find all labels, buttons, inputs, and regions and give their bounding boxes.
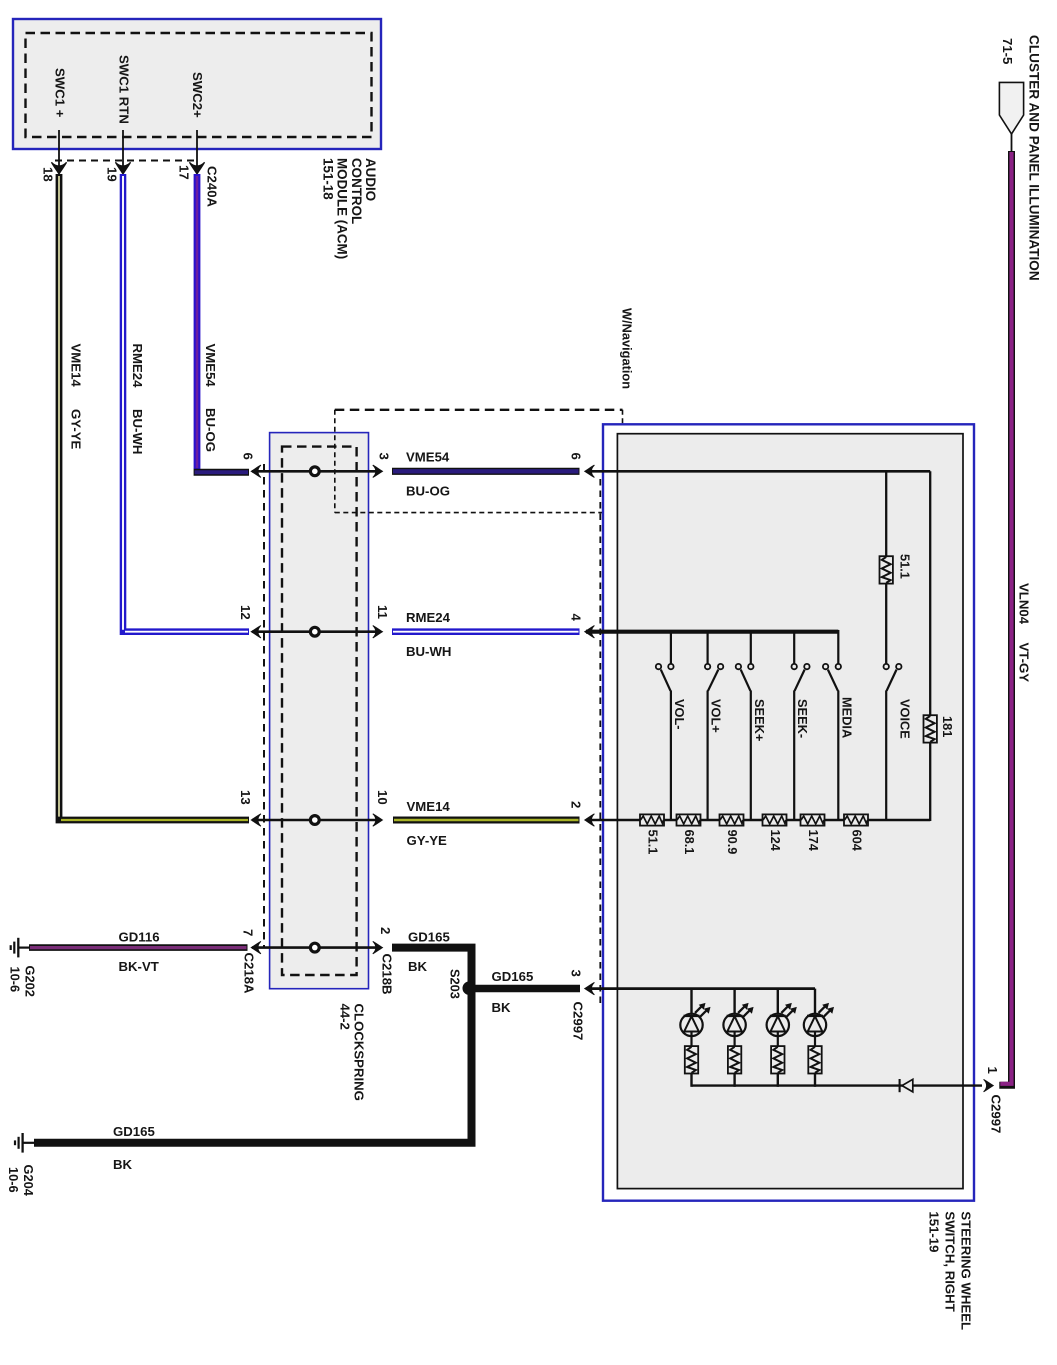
wire resistor 51.1 to VOICE switch: [885, 584, 887, 664]
LED4 resistor tail wire: [814, 1073, 816, 1087]
svg-text:1: 1: [985, 1067, 1000, 1074]
wire VME54 BU-OG horizontal (clockspring pin3 to switch pin6): [392, 468, 580, 475]
wire RME24 BU-WH vertical+horizontal (pin19 to clockspring pin12): [123, 174, 249, 632]
svg-text:BU-WH: BU-WH: [406, 644, 451, 659]
svg-text:2: 2: [378, 927, 393, 934]
wire GD116 BK-VT (G202 to clockspring pin7): [29, 944, 248, 951]
wire branch to resistor 51.1: [885, 471, 887, 556]
off-page connector symbol 71-5: [999, 82, 1023, 134]
clockspring coil symbol row 1: [310, 467, 319, 476]
svg-text:VME54: VME54: [406, 450, 450, 465]
svg-text:VME14: VME14: [407, 799, 451, 814]
wire VLN04 VT-GY vertical: [999, 151, 1011, 1085]
connector arrow clockspring pin 6: [251, 465, 261, 477]
connector arrow clockspring pin 3: [373, 465, 383, 477]
LED2 drop wire: [733, 989, 735, 1014]
internal wire from pin 6 (top): [586, 470, 930, 473]
internal LED return wire to pin 1: [692, 1084, 983, 1086]
svg-text:174: 174: [806, 830, 821, 852]
internal bus wire from pin 4: [586, 630, 838, 634]
svg-text:C218B: C218B: [379, 954, 394, 995]
svg-text:7: 7: [240, 929, 255, 936]
svg-text:VME14: VME14: [69, 344, 84, 388]
connector arrow clockspring pin 2: [373, 941, 383, 953]
ACM pin stub wire 18: [58, 130, 60, 166]
wire RME24 BU-WH horizontal (clockspring pin11 to switch pin4): [392, 628, 580, 635]
wire VME14 GY-YE horizontal (clockspring pin10 to switch pin2): [393, 817, 580, 824]
svg-text:181: 181: [940, 716, 955, 737]
svg-text:GD165: GD165: [408, 930, 450, 945]
resistor 181: [924, 715, 937, 742]
svg-text:3: 3: [569, 970, 584, 977]
resistor 90.9: [720, 814, 744, 825]
svg-text:BU-OG: BU-OG: [406, 484, 450, 499]
svg-text:VT-GY: VT-GY: [1017, 643, 1032, 683]
svg-text:11: 11: [375, 605, 390, 619]
bus drop to VOL+: [706, 632, 708, 664]
connector C240A dashed line: [55, 160, 198, 162]
clockspring internal wire row 3: [252, 819, 381, 822]
connector arrow pin 19: [115, 162, 130, 174]
ACM inner dashed border: [26, 33, 372, 137]
W/Navigation dashed box left edge: [334, 410, 336, 513]
switch VOL+: [705, 664, 723, 821]
resistor 68.1: [677, 814, 701, 825]
svg-text:BK-VT: BK-VT: [119, 959, 159, 974]
clockspring coil symbol row 3: [310, 816, 319, 825]
svg-text:SWC1 RTN: SWC1 RTN: [117, 55, 132, 124]
switch MEDIA: [823, 664, 841, 821]
svg-text:BK: BK: [492, 1000, 512, 1015]
LED4 resistor: [808, 1046, 821, 1073]
bus drop to VOL-: [670, 632, 672, 664]
svg-text:SEEK-: SEEK-: [795, 699, 810, 738]
ACM pin stub wire 19: [122, 130, 124, 166]
svg-text:12: 12: [238, 605, 253, 620]
LED3 drop wire: [777, 989, 779, 1014]
connector arrow switch pin 2: [585, 814, 595, 826]
svg-text:GD116: GD116: [119, 930, 160, 945]
svg-text:68.1: 68.1: [682, 830, 697, 855]
clockspring inner dashed border: [282, 447, 357, 975]
LED2: [723, 1003, 753, 1046]
svg-text:C240A: C240A: [205, 166, 220, 208]
LED3 resistor: [771, 1046, 784, 1073]
svg-text:SWC2+: SWC2+: [190, 72, 205, 118]
svg-text:BK: BK: [408, 959, 428, 974]
svg-text:19: 19: [105, 167, 120, 182]
svg-text:13: 13: [238, 790, 253, 805]
svg-text:51.1: 51.1: [898, 554, 913, 579]
ground G204: [15, 1133, 35, 1153]
svg-text:6: 6: [569, 453, 584, 460]
wire VME54 horizontal to clockspring pin 6: [194, 469, 249, 476]
svg-text:124: 124: [768, 830, 783, 852]
resistor 124: [763, 814, 787, 825]
svg-text:51.1: 51.1: [646, 830, 661, 855]
module box U-ACM outer: [13, 19, 381, 149]
svg-text:10: 10: [375, 790, 390, 805]
LED1 resistor tail wire: [690, 1073, 692, 1087]
connector arrow switch pin 6: [585, 465, 595, 477]
wire GD165 BK branch (S203 to switch pin3): [472, 985, 581, 992]
svg-text:C2997: C2997: [989, 1095, 1004, 1134]
svg-text:VLN04: VLN04: [1017, 583, 1032, 625]
clockspring coil symbol row 4: [310, 943, 319, 952]
svg-text:VOICE: VOICE: [898, 699, 913, 739]
switch SEEK-: [792, 664, 810, 821]
svg-text:3: 3: [377, 453, 392, 460]
svg-text:GY-YE: GY-YE: [407, 833, 448, 848]
svg-text:2: 2: [569, 801, 584, 808]
resistor 51.1 (row): [640, 814, 664, 825]
connector C2997 dashed line: [599, 479, 601, 1008]
diode D1: [900, 1079, 913, 1092]
svg-text:90.9: 90.9: [725, 830, 740, 855]
bus drop to MEDIA: [837, 630, 839, 664]
internal bottom row wire from pin 2: [586, 819, 930, 822]
svg-text:W/Navigation: W/Navigation: [619, 308, 634, 389]
clockspring internal wire row 4: [252, 946, 381, 949]
svg-text:SWC1 +: SWC1 +: [53, 68, 68, 118]
bus drop to SEEK-: [793, 632, 795, 664]
svg-text:6: 6: [240, 453, 255, 460]
connector arrow switch pin 4: [585, 626, 595, 638]
steering wheel switch inner frame: [617, 434, 963, 1189]
svg-text:MEDIA: MEDIA: [839, 697, 854, 738]
svg-text:CLUSTER AND PANEL ILLUMINATION: CLUSTER AND PANEL ILLUMINATION: [1027, 35, 1042, 281]
stub from off-page symbol: [1011, 134, 1013, 152]
LED1 resistor: [685, 1046, 698, 1073]
svg-text:71-5: 71-5: [1000, 38, 1015, 64]
steering wheel switch box outer: [603, 424, 974, 1200]
LED2 resistor tail wire: [733, 1073, 735, 1087]
svg-text:10-6: 10-6: [8, 967, 23, 993]
svg-text:10-6: 10-6: [6, 1167, 21, 1193]
W/Navigation dashed box top edge: [335, 409, 623, 411]
svg-text:BK: BK: [113, 1157, 133, 1172]
internal wire from pin 3 (LED feed): [586, 987, 815, 990]
clockspring box outer: [270, 433, 369, 989]
connector arrow clockspring pin 11: [373, 626, 383, 638]
svg-text:G204: G204: [21, 1165, 36, 1197]
svg-text:C2997: C2997: [571, 1002, 586, 1041]
switch SEEK+: [736, 664, 754, 821]
resistor 604: [844, 814, 868, 825]
svg-text:VOL+: VOL+: [709, 699, 724, 733]
wire right vertical to resistor 181: [929, 471, 931, 714]
svg-text:GD165: GD165: [492, 969, 534, 984]
ACM pin stub wire 17: [196, 130, 198, 166]
svg-text:SEEK+: SEEK+: [752, 699, 767, 741]
bus drop to SEEK+: [750, 632, 752, 664]
connector arrow clockspring pin 13: [251, 814, 261, 826]
LED1 drop wire: [690, 989, 692, 1014]
LED3: [767, 1003, 797, 1046]
wire VME54 BU-OG vertical (pin17 down): [194, 174, 201, 469]
LED3 resistor tail wire: [777, 1073, 779, 1087]
svg-text:BU-OG: BU-OG: [203, 408, 218, 452]
resistor 174: [801, 814, 825, 825]
svg-text:C218A: C218A: [241, 953, 256, 995]
wire resistor 181 to bottom row: [929, 743, 931, 821]
svg-text:17: 17: [177, 165, 192, 180]
LED1: [680, 1003, 710, 1046]
clockspring internal wire row 2: [252, 630, 381, 633]
connector C218A dashed line: [263, 464, 265, 948]
connector arrow clockspring pin 12: [251, 626, 261, 638]
LED4: [804, 1003, 834, 1046]
svg-text:VOL-: VOL-: [672, 699, 687, 730]
svg-text:VME54: VME54: [203, 344, 218, 388]
svg-text:RME24: RME24: [406, 610, 451, 625]
svg-text:S203: S203: [448, 969, 463, 999]
svg-text:604: 604: [850, 830, 865, 852]
connector arrow pin 17: [189, 162, 204, 174]
ground G202: [11, 938, 31, 958]
W/Navigation dashed box right edge: [622, 410, 624, 513]
clockspring coil symbol row 2: [310, 627, 319, 636]
switch VOL-: [656, 664, 674, 821]
switch VOICE: [884, 664, 902, 821]
connector arrow switch pin 3: [585, 982, 595, 994]
connector arrow pin 18: [51, 162, 66, 174]
wire VME14 GY-YE vertical+horizontal (pin18 to clockspring pin13): [59, 174, 249, 820]
svg-text:GY-YE: GY-YE: [69, 409, 84, 450]
LED2 resistor: [728, 1046, 741, 1073]
clockspring internal wire row 1: [252, 470, 381, 473]
connector arrow clockspring pin 7: [251, 941, 261, 953]
resistor 51.1 (top): [880, 556, 893, 583]
connector arrow switch pin 1: [984, 1079, 994, 1091]
wire GD165 BK (clockspring pin2 down to G204): [34, 948, 472, 1143]
W/Navigation dashed box bottom edge: [335, 512, 623, 514]
svg-text:4: 4: [569, 614, 584, 622]
svg-text:G202: G202: [23, 966, 38, 997]
splice S203: [463, 981, 477, 995]
svg-text:18: 18: [41, 167, 56, 182]
svg-text:BU-WH: BU-WH: [130, 409, 145, 454]
svg-text:RME24: RME24: [130, 344, 145, 389]
svg-text:GD165: GD165: [113, 1124, 155, 1139]
connector arrow clockspring pin 10: [373, 814, 383, 826]
LED4 drop wire: [814, 989, 816, 1014]
